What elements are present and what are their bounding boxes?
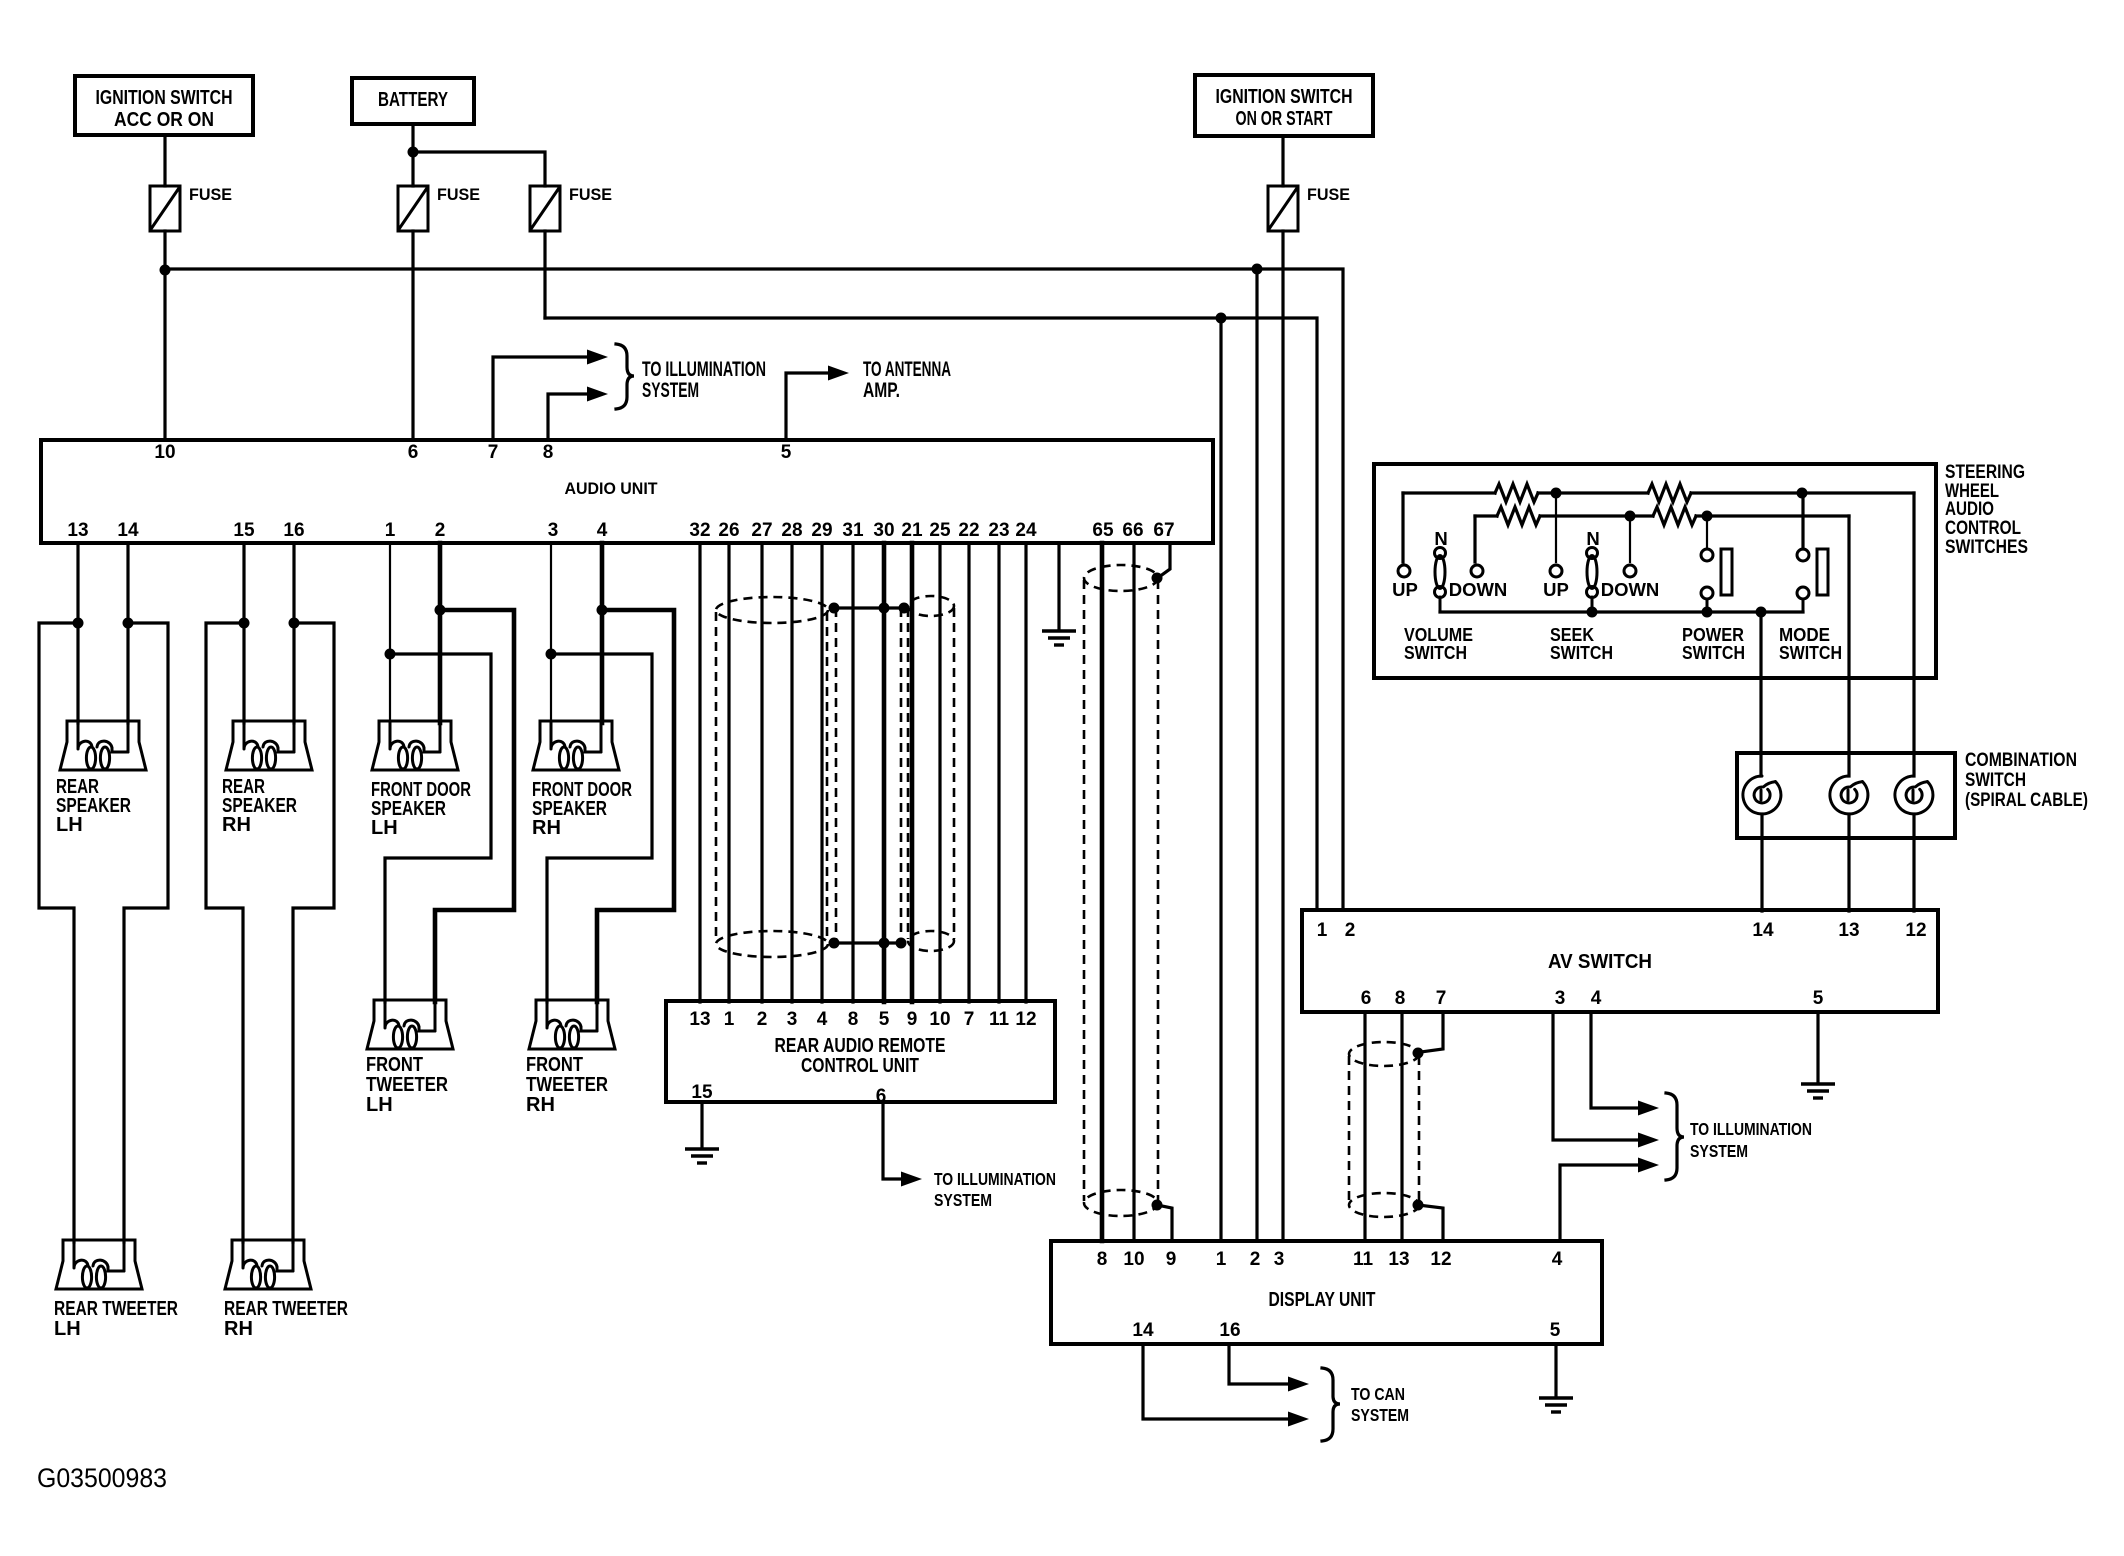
svg-text:26: 26 <box>718 520 739 541</box>
svg-text:SEEK: SEEK <box>1550 625 1594 645</box>
svg-text:DOWN: DOWN <box>1449 579 1508 600</box>
svg-text:TO ANTENNA: TO ANTENNA <box>863 358 951 381</box>
svg-text:TWEETER: TWEETER <box>366 1074 448 1096</box>
svg-text:28: 28 <box>781 520 802 541</box>
svg-text:14: 14 <box>1752 920 1774 941</box>
svg-text:3: 3 <box>1274 1249 1285 1270</box>
svg-text:3: 3 <box>1555 988 1566 1009</box>
svg-text:VOLUME: VOLUME <box>1404 625 1473 645</box>
svg-text:3: 3 <box>548 520 559 541</box>
svg-text:AUDIO: AUDIO <box>1945 499 1994 520</box>
svg-text:FUSE: FUSE <box>1307 185 1350 204</box>
svg-text:14: 14 <box>117 520 139 541</box>
svg-text:2: 2 <box>1345 920 1356 941</box>
svg-text:FUSE: FUSE <box>569 185 612 204</box>
svg-text:8: 8 <box>543 442 554 463</box>
svg-text:1: 1 <box>385 520 396 541</box>
svg-text:29: 29 <box>811 520 832 541</box>
svg-text:CONTROL: CONTROL <box>1945 518 2021 539</box>
svg-text:15: 15 <box>233 520 255 541</box>
svg-text:1: 1 <box>1317 920 1328 941</box>
svg-text:16: 16 <box>283 520 304 541</box>
svg-text:5: 5 <box>781 442 792 463</box>
svg-text:TO ILLUMINATION: TO ILLUMINATION <box>934 1169 1056 1189</box>
svg-text:27: 27 <box>751 520 772 541</box>
svg-text:3: 3 <box>787 1009 798 1030</box>
svg-text:STEERING: STEERING <box>1945 462 2025 483</box>
svg-text:4: 4 <box>817 1009 828 1030</box>
svg-text:ON OR START: ON OR START <box>1236 108 1333 130</box>
svg-text:8: 8 <box>1395 988 1406 1009</box>
svg-text:7: 7 <box>1436 988 1447 1009</box>
svg-text:TWEETER: TWEETER <box>526 1074 608 1096</box>
svg-text:10: 10 <box>929 1009 950 1030</box>
svg-text:POWER: POWER <box>1682 625 1744 645</box>
svg-text:21: 21 <box>901 520 923 541</box>
svg-text:13: 13 <box>1388 1249 1409 1270</box>
svg-text:LH: LH <box>54 1318 81 1340</box>
svg-text:MODE: MODE <box>1779 625 1830 645</box>
svg-text:SYSTEM: SYSTEM <box>934 1190 992 1210</box>
svg-text:23: 23 <box>988 520 1009 541</box>
svg-text:13: 13 <box>1838 920 1859 941</box>
svg-text:12: 12 <box>1905 920 1926 941</box>
svg-text:AMP.: AMP. <box>863 379 900 402</box>
svg-text:N: N <box>1586 528 1599 549</box>
svg-text:FRONT: FRONT <box>526 1054 583 1076</box>
svg-text:REAR TWEETER: REAR TWEETER <box>224 1298 348 1320</box>
svg-text:SWITCH: SWITCH <box>1682 643 1745 663</box>
svg-text:CONTROL UNIT: CONTROL UNIT <box>801 1055 919 1077</box>
svg-text:7: 7 <box>488 442 499 463</box>
svg-text:SYSTEM: SYSTEM <box>642 379 699 402</box>
svg-text:SWITCH: SWITCH <box>1779 643 1842 663</box>
svg-text:4: 4 <box>597 520 608 541</box>
svg-text:REAR TWEETER: REAR TWEETER <box>54 1298 178 1320</box>
svg-text:32: 32 <box>689 520 710 541</box>
svg-text:10: 10 <box>154 442 175 463</box>
svg-text:8: 8 <box>1097 1249 1108 1270</box>
svg-text:24: 24 <box>1015 520 1037 541</box>
svg-text:2: 2 <box>757 1009 768 1030</box>
svg-text:7: 7 <box>964 1009 975 1030</box>
svg-text:RH: RH <box>532 817 561 839</box>
svg-text:1: 1 <box>724 1009 735 1030</box>
svg-text:AUDIO UNIT: AUDIO UNIT <box>565 479 659 498</box>
svg-text:RH: RH <box>222 814 251 836</box>
svg-text:2: 2 <box>435 520 446 541</box>
svg-text:G03500983: G03500983 <box>37 1463 167 1493</box>
svg-text:2: 2 <box>1250 1249 1261 1270</box>
svg-text:5: 5 <box>1550 1320 1561 1341</box>
svg-text:SYSTEM: SYSTEM <box>1351 1405 1409 1425</box>
svg-text:UP: UP <box>1543 579 1569 600</box>
svg-text:1: 1 <box>1216 1249 1227 1270</box>
svg-text:25: 25 <box>929 520 951 541</box>
svg-text:SYSTEM: SYSTEM <box>1690 1141 1748 1161</box>
svg-text:31: 31 <box>842 520 864 541</box>
svg-text:10: 10 <box>1123 1249 1144 1270</box>
svg-text:FUSE: FUSE <box>189 185 232 204</box>
svg-text:5: 5 <box>879 1009 890 1030</box>
svg-text:15: 15 <box>691 1082 713 1103</box>
svg-text:30: 30 <box>873 520 894 541</box>
svg-text:TO CAN: TO CAN <box>1351 1384 1405 1404</box>
svg-text:LH: LH <box>371 817 398 839</box>
svg-text:SWITCH: SWITCH <box>1965 770 2026 791</box>
svg-text:BATTERY: BATTERY <box>378 89 448 111</box>
svg-text:6: 6 <box>408 442 419 463</box>
svg-text:67: 67 <box>1153 520 1174 541</box>
svg-text:11: 11 <box>989 1009 1010 1030</box>
svg-text:(SPIRAL CABLE): (SPIRAL CABLE) <box>1965 790 2088 811</box>
svg-text:11: 11 <box>1353 1249 1374 1270</box>
svg-text:9: 9 <box>1166 1249 1177 1270</box>
svg-text:13: 13 <box>67 520 88 541</box>
svg-text:4: 4 <box>1591 988 1602 1009</box>
svg-text:6: 6 <box>1361 988 1372 1009</box>
svg-text:ACC OR ON: ACC OR ON <box>114 109 214 131</box>
svg-text:5: 5 <box>1813 988 1824 1009</box>
svg-text:14: 14 <box>1132 1320 1154 1341</box>
svg-text:65: 65 <box>1092 520 1114 541</box>
svg-text:4: 4 <box>1552 1249 1563 1270</box>
svg-text:8: 8 <box>848 1009 859 1030</box>
svg-text:FUSE: FUSE <box>437 185 480 204</box>
svg-text:COMBINATION: COMBINATION <box>1965 750 2077 771</box>
svg-text:LH: LH <box>56 814 83 836</box>
svg-text:UP: UP <box>1392 579 1418 600</box>
svg-text:SWITCH: SWITCH <box>1404 643 1467 663</box>
svg-text:TO ILLUMINATION: TO ILLUMINATION <box>642 358 766 381</box>
svg-text:AV SWITCH: AV SWITCH <box>1548 951 1652 973</box>
svg-text:13: 13 <box>689 1009 710 1030</box>
svg-text:DISPLAY UNIT: DISPLAY UNIT <box>1269 1289 1376 1311</box>
svg-text:IGNITION SWITCH: IGNITION SWITCH <box>1216 86 1353 108</box>
svg-text:LH: LH <box>366 1094 393 1116</box>
svg-text:TO ILLUMINATION: TO ILLUMINATION <box>1690 1119 1812 1139</box>
svg-text:9: 9 <box>907 1009 918 1030</box>
svg-text:N: N <box>1434 528 1447 549</box>
svg-text:DOWN: DOWN <box>1601 579 1660 600</box>
svg-text:SWITCHES: SWITCHES <box>1945 537 2028 558</box>
svg-text:RH: RH <box>224 1318 253 1340</box>
svg-text:16: 16 <box>1219 1320 1240 1341</box>
svg-text:66: 66 <box>1122 520 1143 541</box>
svg-text:REAR AUDIO REMOTE: REAR AUDIO REMOTE <box>775 1035 946 1057</box>
svg-text:FRONT: FRONT <box>366 1054 423 1076</box>
svg-text:IGNITION SWITCH: IGNITION SWITCH <box>96 87 233 109</box>
svg-text:22: 22 <box>958 520 979 541</box>
svg-text:6: 6 <box>876 1086 887 1107</box>
svg-text:RH: RH <box>526 1094 555 1116</box>
svg-text:SWITCH: SWITCH <box>1550 643 1613 663</box>
svg-text:12: 12 <box>1430 1249 1451 1270</box>
svg-text:12: 12 <box>1015 1009 1036 1030</box>
